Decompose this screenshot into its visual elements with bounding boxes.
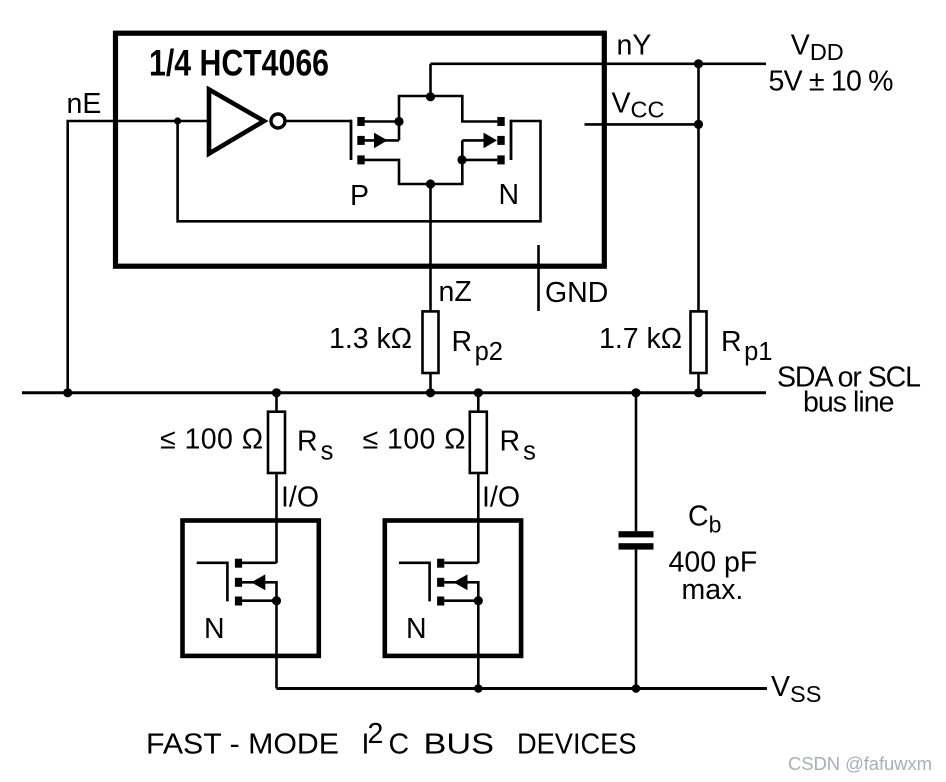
svg-text:5V ± 10 %: 5V ± 10 %: [769, 66, 894, 98]
svg-text:N: N: [204, 613, 225, 645]
device 1 wire drain contact: [242, 561, 277, 564]
inverter output bubble: [271, 114, 285, 128]
transistor P gate bar: [350, 120, 353, 160]
junction dot bus Rp2: [426, 388, 435, 397]
wire nE: from bus up and right to inverter input: [68, 121, 209, 393]
svg-text:nY: nY: [617, 30, 652, 62]
wire Rp1 bottom to bus: [697, 373, 700, 393]
svg-text:GND: GND: [545, 277, 608, 309]
wire P bottom contact to bottom rail: [365, 160, 400, 184]
wire N top contact to right rail corner: [462, 96, 497, 122]
junction dot P drain corner: [394, 117, 403, 126]
wire nY riser from top rail: [429, 64, 432, 96]
transistor N bulk arrow: [484, 133, 498, 149]
wire VCC pin: [585, 123, 699, 126]
device 1 transistor gate lead and bar: [197, 563, 228, 602]
capacitor Cb top lead: [635, 393, 638, 531]
resistor Rp2 body: [423, 311, 439, 373]
svg-text:max.: max.: [682, 574, 744, 606]
svg-text:CSDN @fafuwxm: CSDN @fafuwxm: [788, 753, 932, 774]
svg-text:I/O: I/O: [482, 482, 520, 514]
svg-text:N: N: [499, 179, 520, 211]
wire Rs1 to device 1 I/O: [275, 473, 278, 563]
junction dot bus Rs2: [474, 388, 483, 397]
transistor P bulk arrow: [374, 133, 388, 149]
IC outline box 1/4 HCT4066: [116, 33, 605, 266]
svg-text:1/4 HCT4066: 1/4 HCT4066: [149, 42, 329, 84]
capacitor Cb bottom lead: [635, 550, 638, 689]
wire N bulk and bottom contacts: [462, 140, 498, 184]
resistor Rs2 body: [470, 412, 487, 473]
junction dot top rail: [426, 92, 435, 101]
transistor P contact squares: [357, 117, 364, 126]
transistor N contact squares: [497, 117, 504, 126]
svg-text:nZ: nZ: [439, 276, 472, 308]
device 1 bulk arrow: [251, 574, 265, 590]
device 2 wire source to VSS: [477, 601, 480, 689]
svg-text:≤ 100 Ω: ≤ 100 Ω: [363, 424, 466, 456]
junction dot at inverter input: [174, 117, 181, 124]
svg-text:N: N: [406, 613, 427, 645]
device 1 box: [183, 521, 319, 656]
junction dot VCC: [694, 120, 703, 129]
svg-text:P: P: [350, 180, 369, 212]
svg-text:2: 2: [368, 718, 384, 750]
device 2 bulk wire with corner: [444, 582, 478, 600]
device 2 wire source contact: [444, 599, 478, 602]
wire bus to Rs1: [275, 393, 278, 412]
junction dot VSS device 2: [474, 684, 483, 693]
ground pin stub GND: [537, 245, 540, 311]
svg-text:FAST - MODE: FAST - MODE: [146, 728, 339, 760]
junction dot bus Rp1: [694, 388, 703, 397]
junction dot bus Cb: [631, 388, 640, 397]
junction dot bottom rail nZ: [426, 179, 435, 188]
transmission gate bottom rail: [398, 183, 464, 186]
wire P top/bulk contacts to left rail corner: [365, 96, 400, 140]
wire Rs2 to device 2 I/O: [477, 473, 480, 563]
svg-text:nE: nE: [67, 88, 102, 120]
svg-text:1.3 kΩ: 1.3 kΩ: [329, 323, 412, 355]
svg-text:DEVICES: DEVICES: [517, 728, 637, 760]
wire nZ from bottom rail down to Rp2: [429, 184, 432, 312]
op-amp inverter triangle: [209, 90, 264, 154]
device 2 box: [385, 521, 521, 656]
junction dot bus Rs1: [272, 388, 281, 397]
transistor N (transmission gate) gate bar: [510, 120, 513, 160]
resistor Rp1 body: [691, 311, 707, 373]
device 2 bulk arrow: [454, 574, 468, 590]
svg-text:1.7 kΩ: 1.7 kΩ: [599, 323, 682, 355]
device 1 wire source to VSS: [275, 601, 278, 689]
wire feedback from inverter input to N gate: [178, 121, 541, 221]
device 1 wire source contact: [242, 599, 277, 602]
svg-text:≤ 100 Ω: ≤ 100 Ω: [160, 424, 263, 456]
wire SDA/SCL bus line: [22, 391, 766, 394]
wire VSS line: [277, 687, 768, 690]
svg-text:BUS: BUS: [424, 728, 495, 760]
device 1 transistor contact squares: [235, 559, 242, 568]
wire VDD rail down to Rp1: [697, 64, 700, 312]
device 2 transistor contact squares: [437, 559, 444, 568]
junction dot N source corner: [457, 155, 466, 164]
device 2 junction dot source: [474, 596, 483, 605]
junction dot VSS Cb: [632, 684, 641, 693]
wire nY horizontal to VDD: [431, 62, 767, 65]
device 1 bulk wire with corner: [242, 582, 277, 600]
wire Rp2 bottom to bus: [429, 373, 432, 393]
device 1 junction dot source: [272, 596, 281, 605]
junction dot VDD top: [694, 59, 703, 68]
junction dot bus nE: [63, 388, 72, 397]
wire inverter output to P gate: [286, 120, 352, 123]
device 2 transistor gate lead and bar: [399, 563, 430, 602]
resistor Rs1 body: [268, 412, 285, 473]
transmission gate top rail: [398, 95, 464, 98]
svg-text:bus line: bus line: [803, 387, 895, 419]
wire bus to Rs2: [477, 393, 480, 412]
device 2 wire drain contact: [444, 561, 478, 564]
svg-text:I/O: I/O: [281, 482, 319, 514]
capacitor Cb plates: [619, 531, 654, 537]
svg-text:C: C: [389, 728, 410, 760]
